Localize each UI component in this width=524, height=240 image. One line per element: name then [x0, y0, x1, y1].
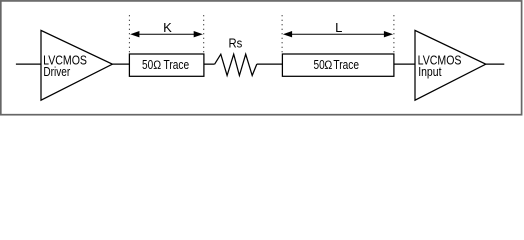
buffer U1 LVCMOS Driver [41, 30, 112, 100]
transmission line 50 ohm trace L [282, 54, 394, 76]
wire driver output to trace K [112, 63, 129, 65]
dimension L [282, 15, 394, 52]
wire trace L to input buffer [394, 63, 415, 65]
svg-text:Driver: Driver [43, 64, 70, 79]
wire input to driver [16, 63, 41, 65]
svg-text:Trace: Trace [333, 57, 359, 72]
wire trace K to resistor [204, 63, 215, 65]
svg-text:Input: Input [418, 64, 442, 79]
svg-text:K: K [163, 20, 172, 35]
buffer U2 LVCMOS Input [415, 30, 486, 100]
svg-text:50: 50 [142, 57, 153, 72]
svg-text:L: L [335, 20, 342, 35]
wire resistor to trace L [257, 63, 283, 65]
svg-text:Ω: Ω [153, 59, 161, 72]
transmission line 50 ohm trace K [129, 54, 204, 76]
dimension K [129, 15, 203, 52]
wire output [485, 63, 504, 65]
svg-text:Rs: Rs [229, 36, 243, 51]
svg-text:50: 50 [314, 57, 325, 72]
svg-text:Trace: Trace [164, 57, 190, 72]
border frame (decorative) [1, 1, 522, 115]
resistor Rs [215, 36, 257, 76]
svg-text:Ω: Ω [324, 59, 332, 72]
